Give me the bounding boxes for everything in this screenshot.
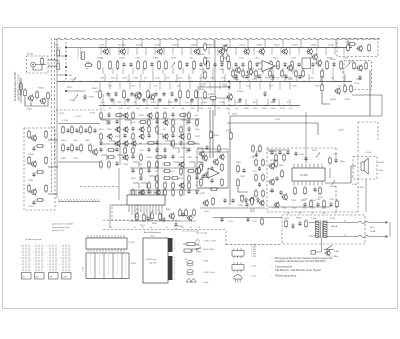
svg-text:6: 6 (174, 273, 175, 275)
svg-text:IC142: IC142 (274, 45, 281, 47)
svg-text:1 1207: 1 1207 (58, 113, 65, 115)
resistor (269, 69, 272, 78)
svg-text:C162x: C162x (354, 83, 360, 85)
resistor (188, 174, 191, 183)
wire (100, 143, 200, 145)
resistor R2106 (80, 143, 83, 152)
capacitor (158, 98, 161, 103)
resistor R714 (255, 189, 258, 198)
wire (159, 40, 161, 48)
svg-text:2: 2 (43, 248, 44, 250)
node (271, 81, 272, 82)
svg-text:C341: C341 (155, 77, 161, 79)
svg-text:5: 5 (57, 266, 58, 268)
svg-text:L1312: L1312 (239, 45, 246, 47)
wire (152, 68, 154, 75)
diode D413 (264, 91, 267, 96)
resistor R306 (144, 60, 147, 70)
diode (100, 140, 103, 145)
svg-text:C762: C762 (316, 199, 321, 201)
resistor (47, 91, 50, 100)
shield box right boundary (357, 122, 359, 212)
resistor R327 (291, 60, 294, 70)
svg-text:C52x: C52x (179, 178, 184, 180)
wire IC top ticks (130, 190, 163, 195)
svg-text:2k: 2k (190, 227, 192, 229)
wire (343, 48, 345, 56)
wire (122, 68, 124, 75)
wire (344, 74, 346, 82)
svg-text:2: 2 (60, 252, 61, 254)
transistor (123, 126, 129, 133)
svg-text:a 607: a 607 (275, 119, 281, 121)
resistor (255, 69, 258, 78)
transistor V1102 (30, 160, 36, 168)
wire shielded feed (65, 42, 67, 80)
capacitor C703 (294, 151, 297, 156)
wire (352, 94, 382, 96)
capacitor (84, 128, 87, 133)
wire (223, 99, 225, 106)
op-amp U502 (208, 168, 219, 178)
svg-text:C51x: C51x (197, 182, 201, 184)
capacitor (181, 212, 184, 217)
wire (264, 40, 266, 48)
capacitor (171, 154, 174, 159)
resistor R802 (305, 219, 308, 228)
wire (198, 187, 228, 189)
resistor (221, 178, 224, 187)
wire (224, 74, 226, 82)
wire (196, 40, 198, 48)
svg-text:Tu: Tu (344, 235, 346, 237)
wire (201, 99, 203, 106)
transistor V1405 (306, 48, 312, 56)
svg-text:3: 3 (57, 254, 58, 256)
svg-text:L30x: L30x (195, 129, 199, 131)
wire (320, 74, 322, 82)
wire (113, 99, 115, 106)
svg-text:R142x: R142x (199, 89, 205, 91)
wire (197, 86, 229, 88)
wire (332, 68, 334, 75)
svg-text:C 61x: C 61x (228, 221, 233, 223)
svg-text:1: 1 (20, 246, 21, 248)
trimmer P310 (171, 63, 175, 68)
transformer T801 (316, 221, 328, 239)
wire (302, 68, 304, 75)
resistor R521 (237, 178, 240, 187)
wire (262, 68, 264, 75)
capacitor (187, 189, 190, 194)
svg-text:C341: C341 (320, 77, 326, 79)
board outline inner (103, 220, 180, 222)
wire (163, 48, 165, 56)
wire (131, 208, 133, 215)
svg-text:C 12W: C 12W (103, 94, 105, 100)
resistor (179, 114, 188, 117)
svg-text:4: 4 (30, 260, 31, 262)
wire (282, 40, 284, 48)
wire (145, 48, 147, 56)
svg-text:3: 3 (30, 254, 31, 256)
switch S801 (324, 246, 334, 250)
wire (272, 68, 274, 75)
wire (189, 82, 191, 90)
svg-text:4 600: 4 600 (338, 130, 344, 132)
wire (197, 148, 203, 153)
wire (66, 90, 85, 92)
svg-text:C52x: C52x (199, 77, 204, 79)
resistor R300 (98, 60, 101, 70)
svg-text:L1430: L1430 (328, 45, 335, 47)
wire (152, 74, 154, 82)
resistor R324 (270, 60, 273, 70)
resistor R1108 (36, 171, 45, 174)
svg-text:L30x: L30x (131, 86, 135, 88)
shield box IF module (24, 128, 55, 210)
svg-text:R608: R608 (152, 223, 157, 225)
resistor (347, 43, 350, 52)
resistor R305 (137, 60, 140, 70)
svg-text:L1611: L1611 (348, 61, 354, 63)
transistor V702 (249, 197, 255, 204)
transistor (147, 112, 153, 119)
resistor R1413 (204, 70, 207, 80)
capacitor (32, 200, 35, 205)
wire (100, 48, 102, 56)
shield box left edge (51, 38, 53, 193)
resistor R715 (262, 189, 265, 198)
wire (213, 217, 282, 219)
svg-text:R 121: R 121 (90, 113, 96, 115)
diode (140, 175, 143, 180)
svg-text:7: 7 (174, 276, 175, 278)
resistor (198, 166, 201, 175)
resistor R2101 (71, 125, 74, 134)
svg-text:10k: 10k (211, 101, 214, 103)
transistor V601 (168, 212, 174, 220)
transistor V1302 (119, 48, 125, 56)
shield box sound bottom (267, 211, 358, 213)
svg-text:Anschlüßbelegung: Anschlüßbelegung (144, 231, 161, 234)
resistor (180, 125, 183, 134)
svg-text:C1401: C1401 (256, 45, 263, 47)
resistor R713 (262, 173, 265, 182)
package outline DIP4 2 (232, 262, 244, 272)
symbol tick 2 (196, 247, 201, 250)
resistor R321 (249, 60, 252, 70)
svg-text:5: 5 (30, 266, 31, 268)
wire (157, 112, 159, 196)
wire (48, 59, 58, 61)
resistor (172, 188, 175, 197)
capacitor (201, 174, 204, 179)
svg-text:V 602: V 602 (131, 263, 137, 265)
diode D329 (305, 62, 308, 67)
capacitor (93, 128, 96, 133)
svg-text:2: 2 (33, 252, 34, 254)
resistor (163, 163, 172, 166)
wire (212, 74, 214, 82)
svg-text:R50x: R50x (210, 77, 215, 79)
capacitor (270, 150, 273, 155)
resistor R3001 (57, 50, 60, 56)
wire (280, 48, 282, 56)
wire (142, 68, 144, 75)
resistor R1621 (321, 83, 324, 92)
diode (108, 112, 111, 117)
svg-text:78: 78 (86, 69, 88, 71)
diode D801 (292, 223, 295, 228)
module outline U500 (197, 149, 228, 188)
svg-text:2: 2 (174, 243, 175, 245)
diode (188, 126, 191, 131)
wire (238, 187, 248, 192)
capacitor C330 (311, 62, 314, 67)
wire (316, 48, 318, 56)
svg-text:R716: R716 (270, 160, 275, 162)
capacitor (278, 150, 281, 155)
svg-text:F 80x: F 80x (330, 218, 335, 220)
wire (139, 82, 141, 90)
node (191, 81, 192, 82)
capacitor (162, 217, 165, 222)
resistor (147, 142, 156, 145)
svg-text:+12V: +12V (196, 245, 201, 247)
svg-text:R52x: R52x (279, 165, 284, 167)
resistor R702 (294, 186, 297, 195)
capacitor (187, 147, 190, 152)
transistor V1602 (356, 64, 362, 72)
capacitor (334, 158, 337, 163)
svg-text:Typ 3/2: Typ 3/2 (149, 263, 157, 265)
diode D317 (221, 62, 224, 67)
capacitor (270, 188, 273, 193)
wire (327, 222, 347, 224)
wire (232, 68, 234, 75)
shield box power supply (282, 215, 365, 244)
transistor V1306 outer shield (134, 92, 141, 99)
svg-text:R50x: R50x (199, 162, 203, 164)
resistor (148, 160, 151, 169)
transistor (123, 112, 129, 119)
capacitor (115, 119, 118, 124)
svg-text:7: 7 (318, 159, 319, 161)
svg-text:B 607 B 602: B 607 B 602 (203, 249, 215, 251)
wire (168, 99, 170, 106)
wire (229, 40, 231, 48)
wire (109, 48, 111, 56)
svg-text:Z 602: Z 602 (251, 266, 256, 268)
wire (127, 48, 129, 56)
svg-text:R30x: R30x (86, 62, 91, 64)
shield box left edge inner (54, 38, 56, 165)
wire (235, 48, 237, 56)
resistor (281, 169, 284, 178)
svg-text:T 801: T 801 (311, 218, 317, 220)
wire (219, 82, 221, 90)
node (211, 105, 212, 106)
svg-text:R1007: R1007 (38, 88, 45, 90)
diode D602 (257, 197, 260, 202)
wire (101, 120, 107, 125)
resistor R2103 (89, 125, 92, 134)
svg-text:C 76: C 76 (310, 213, 314, 215)
resistor (163, 170, 172, 173)
transistor V703 (259, 200, 265, 207)
resistor (196, 167, 199, 176)
fuse F801 (358, 221, 369, 223)
svg-text:R31x: R31x (309, 77, 314, 79)
transistor V1409 (246, 68, 252, 76)
wire (101, 155, 107, 160)
transistor V1101 (30, 134, 36, 142)
wire (155, 208, 157, 215)
wire (271, 48, 273, 56)
wire (140, 74, 142, 82)
wire (192, 68, 194, 75)
svg-text:10k: 10k (208, 108, 211, 110)
resistor (200, 163, 203, 172)
svg-text:rot übern gezahlt: rot übern gezahlt (25, 238, 42, 241)
resistor (172, 181, 175, 190)
capacitor (190, 98, 193, 103)
svg-text:R80x: R80x (340, 161, 345, 163)
resistor (156, 181, 159, 190)
svg-text:R31x: R31x (262, 108, 267, 110)
wire (267, 99, 269, 106)
transistor V1304 (193, 48, 199, 56)
transistor V1002 (39, 97, 45, 105)
board outline bottom (226, 244, 282, 246)
node (159, 81, 160, 82)
wire (157, 134, 163, 139)
wire (154, 48, 156, 56)
svg-text:AFC: AFC (198, 251, 202, 254)
wire (57, 55, 66, 57)
svg-text:N-Signalbaustein 29-501: N-Signalbaustein 29-501 (13, 71, 17, 101)
node (139, 105, 140, 106)
transistor V508 (199, 151, 205, 158)
resistor R30x (84, 64, 93, 67)
wire (48, 139, 58, 141)
package outline TO92 (234, 275, 243, 283)
svg-text:L30x: L30x (163, 108, 167, 110)
diode D601 (245, 197, 248, 202)
svg-text:M80xA: M80xA (331, 225, 338, 228)
transistor (163, 119, 169, 126)
speaker LS751 (361, 158, 368, 174)
diode D333 (333, 62, 336, 67)
svg-text:k3: k3 (166, 227, 168, 229)
svg-text:4 60x: 4 60x (174, 228, 179, 230)
resistor (156, 111, 159, 120)
tuner connector bar 1 (168, 238, 173, 252)
svg-text:R50x: R50x (302, 208, 307, 210)
resistor R712 (255, 173, 258, 182)
wire (351, 166, 356, 183)
socket symbol X603 (187, 261, 193, 266)
wire (149, 82, 151, 90)
svg-text:7: 7 (126, 227, 127, 229)
wire (209, 110, 211, 158)
capacitor (126, 98, 129, 103)
resistor R309 (165, 60, 168, 70)
wire (200, 207, 265, 209)
capacitor (147, 168, 150, 173)
wire (365, 179, 367, 212)
wire (119, 112, 121, 165)
node (223, 81, 224, 82)
transistor (123, 154, 129, 161)
svg-text:L786A: L786A (97, 57, 104, 60)
capacitor (205, 145, 208, 150)
svg-text:R161x: R161x (330, 59, 336, 61)
node (95, 81, 96, 82)
svg-text:2: 2 (70, 248, 71, 250)
svg-text:L 790x: L 790x (358, 187, 364, 189)
shield box sound right (335, 148, 337, 160)
board outline step (225, 231, 227, 245)
svg-text:4: 4 (43, 260, 44, 262)
node (157, 105, 158, 106)
svg-text:F 801: F 801 (296, 218, 302, 220)
wire (202, 68, 204, 75)
resistor (302, 69, 305, 78)
shield box tuner AGC (337, 39, 378, 57)
wire (325, 48, 327, 56)
svg-text:Leitung beim Teile: Leitung beim Teile (52, 226, 70, 229)
resistor (353, 61, 356, 70)
capacitor (242, 168, 245, 173)
wire (212, 99, 214, 106)
node (287, 81, 288, 82)
capacitor (279, 190, 282, 195)
capacitor (155, 140, 158, 145)
svg-text:C52x: C52x (190, 108, 195, 110)
tuner connector bar 2 (168, 256, 173, 280)
svg-text:2k: 2k (182, 227, 184, 229)
capacitor (131, 168, 134, 173)
resistor R2102 (80, 125, 83, 134)
wire (309, 235, 316, 237)
svg-text:C713: C713 (252, 171, 257, 173)
capacitor (257, 74, 260, 79)
wire (146, 99, 148, 106)
diode (108, 119, 111, 124)
wire (183, 112, 185, 196)
wire (112, 68, 114, 75)
resistor (180, 167, 183, 176)
wire (278, 99, 280, 106)
resistor R1003 (20, 82, 23, 91)
node (193, 105, 194, 106)
resistor (323, 199, 326, 208)
wire (249, 82, 251, 90)
wire (289, 48, 291, 56)
wire bus 123 (227, 122, 318, 124)
resistor R2105 (71, 143, 74, 152)
wire (143, 208, 145, 215)
resistor R406 (147, 89, 150, 99)
wire (197, 162, 203, 167)
svg-text:2k: 2k (134, 227, 136, 229)
IC U602 DIP (86, 235, 127, 252)
shield box speaker (353, 157, 377, 180)
wire (317, 123, 319, 135)
node (79, 81, 80, 82)
